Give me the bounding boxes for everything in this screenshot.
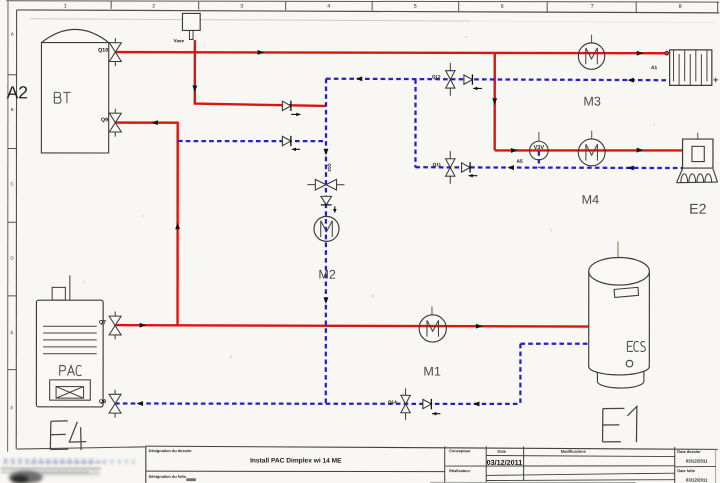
svg-text:8: 8 <box>679 4 682 10</box>
svg-text:Q8: Q8 <box>99 399 106 405</box>
svg-text:Q9: Q9 <box>101 117 108 123</box>
svg-text:E2: E2 <box>689 202 706 218</box>
svg-text:4: 4 <box>327 4 330 10</box>
svg-text:Désignation du folio: Désignation du folio <box>149 474 187 479</box>
svg-text:1: 1 <box>64 3 67 9</box>
svg-text:Modifications: Modifications <box>561 449 586 454</box>
svg-text:5: 5 <box>414 4 417 10</box>
svg-text:A5: A5 <box>516 159 523 165</box>
svg-text:A: A <box>11 32 15 37</box>
svg-text:3: 3 <box>240 4 243 10</box>
svg-text:Date dossier: Date dossier <box>677 449 701 454</box>
svg-text:Désignation du dossier: Désignation du dossier <box>149 448 193 453</box>
svg-text:Date folio: Date folio <box>677 468 695 473</box>
svg-text:D: D <box>10 256 14 261</box>
svg-text:B: B <box>11 107 14 112</box>
svg-text:Q14: Q14 <box>388 400 397 405</box>
svg-text:7: 7 <box>591 4 594 10</box>
svg-text:Q11: Q11 <box>433 162 442 167</box>
svg-text:A2: A2 <box>7 82 28 102</box>
svg-text:E: E <box>10 330 13 335</box>
svg-text:Concepteur: Concepteur <box>449 448 471 453</box>
svg-text:M1: M1 <box>423 365 441 379</box>
svg-text:M3: M3 <box>583 94 601 108</box>
svg-text:M2: M2 <box>318 268 336 282</box>
svg-text:F: F <box>11 406 14 411</box>
svg-text:03/12/2011: 03/12/2011 <box>487 458 523 467</box>
svg-text:Q13: Q13 <box>327 163 332 172</box>
svg-text:03/12/2011: 03/12/2011 <box>686 458 708 463</box>
svg-text:Réalisateur: Réalisateur <box>449 468 470 473</box>
svg-text:2: 2 <box>152 3 155 9</box>
svg-text:Q7: Q7 <box>99 320 106 326</box>
svg-text:C: C <box>10 182 14 187</box>
svg-text:Q12: Q12 <box>432 74 441 79</box>
svg-text:03/12/2011: 03/12/2011 <box>686 477 708 482</box>
svg-text:Q10: Q10 <box>98 48 108 54</box>
svg-text:Vase: Vase <box>174 38 185 43</box>
svg-text:A1: A1 <box>651 65 658 71</box>
svg-text:6: 6 <box>501 4 504 10</box>
svg-text:Date: Date <box>498 449 507 454</box>
svg-text:V3V: V3V <box>534 145 545 151</box>
svg-text:Install PAC Dimplex wi 14 ME: Install PAC Dimplex wi 14 ME <box>250 458 342 465</box>
svg-text:M4: M4 <box>582 193 600 207</box>
